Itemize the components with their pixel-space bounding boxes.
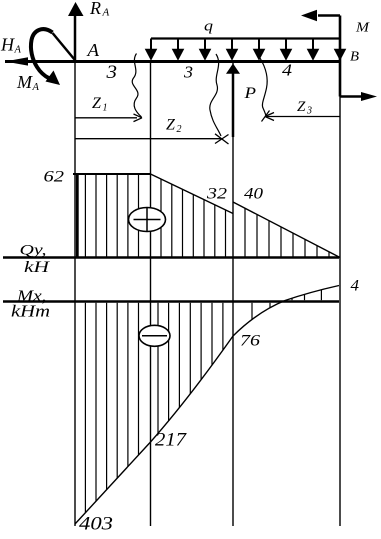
svg-text:32: 32 <box>206 186 228 203</box>
svg-text:3: 3 <box>105 62 117 83</box>
svg-text:4: 4 <box>282 61 292 80</box>
Qy hatching under second diagonal <box>244 208 246 256</box>
svg-text:Z: Z <box>92 95 102 112</box>
Qy diagonal 62 to 32 <box>151 174 234 214</box>
svg-text:B: B <box>350 50 359 65</box>
Qy diagonal 40 to 0 <box>233 202 340 258</box>
svg-text:4: 4 <box>351 278 360 295</box>
svg-text:kH: kH <box>24 259 51 276</box>
svg-text:M: M <box>16 72 33 92</box>
svg-text:M: M <box>355 21 371 36</box>
svg-text:40: 40 <box>244 186 263 203</box>
dimension line Z3 <box>266 116 340 118</box>
wire vertical grid line at x=233 <box>232 63 234 527</box>
svg-text:A: A <box>86 40 100 60</box>
svg-text:Z: Z <box>166 117 176 134</box>
reaction force arrow H_A <box>5 57 28 65</box>
reaction force arrow R_A <box>74 15 77 62</box>
svg-text:3: 3 <box>183 63 193 82</box>
wire vertical grid line at support A (x=75) <box>74 62 76 527</box>
leader squiggle for Z1 <box>132 54 141 118</box>
svg-text:1: 1 <box>103 103 108 114</box>
svg-text:Z: Z <box>297 99 306 115</box>
wire vertical grid line at beam end B (x=340) <box>339 96 341 526</box>
reaction moment arrow M_A <box>53 33 75 60</box>
beam AB <box>5 60 340 63</box>
force arrow P <box>232 70 235 137</box>
svg-text:217: 217 <box>155 430 188 451</box>
leader squiggle for Z2 <box>210 54 221 136</box>
applied moment M couple arrows <box>318 14 340 17</box>
svg-text:A: A <box>32 82 40 93</box>
plus sign ellipse on Qy diagram <box>129 208 166 232</box>
svg-text:kHm: kHm <box>11 302 50 321</box>
Qy hatching under first diagonal <box>160 179 162 256</box>
svg-text:P: P <box>243 85 256 102</box>
svg-text:3: 3 <box>306 106 312 117</box>
svg-text:76: 76 <box>240 333 260 350</box>
svg-text:q: q <box>204 19 214 35</box>
dimension line Z2 <box>75 138 222 140</box>
svg-text:A: A <box>14 45 22 56</box>
svg-text:R: R <box>89 0 101 18</box>
Qy hatching under 62 rectangle <box>84 175 86 257</box>
Mx hatching below axis <box>84 303 86 513</box>
Mx axis line <box>3 300 339 303</box>
dimension line Z1 <box>75 117 137 119</box>
Qy rectangle outline (62 segment) <box>76 174 79 258</box>
distributed load q (arrows) <box>151 37 340 39</box>
minus sign ellipse on Mx diagram <box>139 325 170 346</box>
Mx hatching above axis (positive tip) <box>291 298 293 300</box>
svg-text:H: H <box>0 35 15 55</box>
Qy axis line <box>3 256 339 259</box>
svg-text:403: 403 <box>79 514 113 535</box>
svg-text:A: A <box>102 7 110 19</box>
leader squiggle for Z3 <box>260 58 267 116</box>
wire vertical grid line at x=150 <box>150 63 152 527</box>
svg-text:2: 2 <box>177 124 182 135</box>
svg-text:62: 62 <box>44 169 65 186</box>
svg-text:Qy,: Qy, <box>20 243 47 259</box>
Mx bending moment curve <box>75 286 339 525</box>
